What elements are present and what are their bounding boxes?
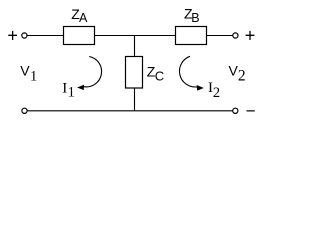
svg-text:+: +: [7, 26, 18, 46]
svg-text:1: 1: [68, 84, 75, 100]
impedance ZB (box): [176, 27, 207, 45]
label I1: [62, 81, 75, 101]
wire top-right: ZB to TR terminal: [207, 35, 233, 37]
wire top-left: TL terminal to ZA: [27, 35, 64, 37]
label V2: [229, 63, 246, 85]
impedance ZA (box): [64, 27, 95, 45]
impedance ZC (box): [126, 57, 143, 89]
mesh current arc I1 (clockwise arrow, left mesh): [78, 57, 101, 90]
svg-text:+: +: [245, 26, 256, 46]
svg-text:B: B: [191, 11, 199, 25]
svg-text:A: A: [79, 11, 88, 25]
svg-text:2: 2: [238, 67, 246, 84]
wire top-middle: ZA to ZB through node: [95, 35, 177, 37]
terminal TR (top-right port, open circle): [233, 33, 238, 38]
label ZB: [184, 6, 200, 25]
wire vertical: top node down to ZC: [134, 36, 136, 58]
terminal BR (bottom-right port, open circle): [233, 108, 238, 113]
wire vertical: ZC down to bottom rail: [134, 88, 136, 111]
svg-text:C: C: [155, 68, 164, 83]
svg-text:1: 1: [30, 68, 37, 84]
wire bottom rail: BL terminal to BR terminal: [27, 110, 232, 112]
svg-text:2: 2: [213, 85, 220, 101]
label I2: [208, 80, 220, 101]
terminal BL (bottom-left port, open circle): [22, 108, 27, 113]
label ZC: [147, 63, 164, 83]
label V1: [20, 62, 37, 84]
svg-text:I: I: [62, 81, 67, 97]
mesh current arc I2 (clockwise arrow, right mesh): [179, 56, 202, 90]
svg-text:V: V: [20, 62, 30, 78]
label ZA: [71, 6, 88, 25]
terminal TL (top-left port, open circle): [22, 33, 27, 38]
svg-text:−: −: [246, 101, 256, 120]
